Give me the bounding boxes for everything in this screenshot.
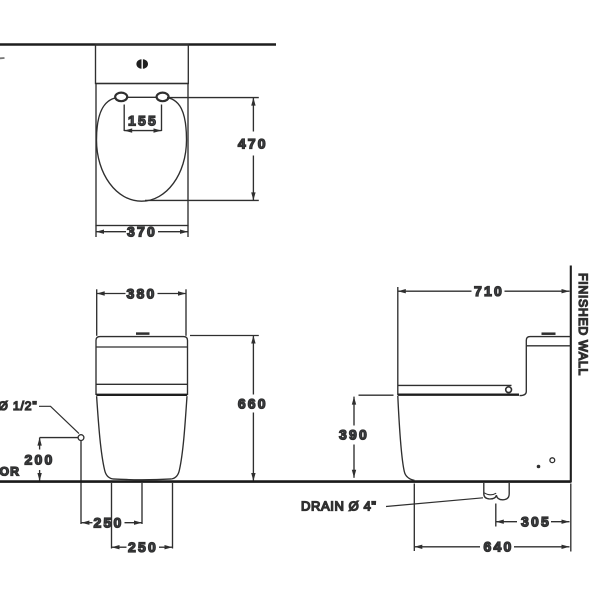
svg-text:Ø 1/2": Ø 1/2" bbox=[0, 399, 38, 413]
centre line below floor bbox=[141, 483, 143, 524]
wall line (plan) bbox=[0, 43, 276, 46]
svg-text:470: 470 bbox=[238, 135, 268, 151]
dimension 710 left extension line bbox=[397, 287, 399, 395]
seat (top view, egg shape) bbox=[97, 97, 187, 201]
supply leader line bbox=[39, 406, 79, 433]
svg-text:FINISHED WALL: FINISHED WALL bbox=[576, 273, 590, 376]
dimension 305 extension line (drain centre) bbox=[495, 504, 497, 527]
svg-text:660: 660 bbox=[238, 395, 268, 411]
floor line bbox=[0, 480, 571, 483]
stray edge tick top-left bbox=[0, 57, 5, 59]
bolt cap circle (side) bbox=[550, 458, 555, 463]
svg-text:DRAIN Ø 4": DRAIN Ø 4" bbox=[301, 499, 377, 514]
finished wall line bbox=[570, 266, 572, 483]
seat top line (front) bbox=[96, 383, 188, 385]
hinge right bbox=[157, 93, 169, 102]
svg-text:640: 640 bbox=[484, 539, 514, 555]
supply line below floor bbox=[80, 441, 82, 524]
seat bottom thick line (front) bbox=[96, 394, 187, 396]
dimension 250 lower line and arrows bbox=[112, 546, 127, 548]
svg-text:305: 305 bbox=[521, 514, 551, 530]
dimension 390 extension line bbox=[359, 394, 394, 396]
dimension 660 extension line bbox=[190, 335, 259, 337]
drain pipe (side) bbox=[484, 483, 509, 500]
bowl front edge (side) bbox=[398, 396, 415, 480]
dimension 200 tick to circle bbox=[40, 437, 78, 439]
svg-text:390: 390 bbox=[339, 427, 369, 443]
svg-text:250: 250 bbox=[94, 515, 124, 531]
dimension 640 extension line (bowl front) bbox=[413, 484, 415, 552]
seat bottom thick line (side) bbox=[398, 394, 519, 396]
bolt line b below floor bbox=[172, 483, 174, 549]
dimension 155 extension lines bbox=[123, 105, 125, 132]
flush button bbox=[136, 59, 148, 69]
tank top line (side) bbox=[520, 337, 571, 396]
dimension 660 line and arrows bbox=[252, 336, 254, 395]
drain leader line bbox=[386, 498, 483, 507]
dimension 640 line and arrows bbox=[414, 546, 480, 548]
svg-text:370: 370 bbox=[127, 224, 157, 240]
dimension 710 line and arrows bbox=[398, 290, 472, 292]
bolt cap dot (side) bbox=[537, 465, 541, 469]
bowl base arc (front) bbox=[113, 478, 172, 481]
drain lip arc bbox=[484, 493, 496, 495]
dimension 155 line and arrows bbox=[124, 130, 161, 132]
dimension 200 line and arrows bbox=[39, 438, 41, 450]
svg-text:380: 380 bbox=[127, 285, 157, 301]
svg-text:OR: OR bbox=[0, 464, 20, 478]
dimension 370 extension lines bbox=[95, 226, 97, 238]
hinge left bbox=[115, 93, 127, 102]
tank (front view) bbox=[96, 337, 188, 395]
tank lid handle (front) bbox=[136, 332, 150, 335]
dimension 305 line and arrows bbox=[496, 521, 517, 523]
dimension 370 line and arrows bbox=[96, 231, 126, 233]
dimension 250 upper line and arrows bbox=[81, 522, 92, 524]
wall extension below floor bbox=[570, 484, 572, 552]
dimension 380 extension lines bbox=[96, 289, 98, 336]
tank lid handle (side) bbox=[542, 332, 556, 335]
svg-text:155: 155 bbox=[128, 113, 158, 129]
seat top line (side) bbox=[398, 384, 512, 386]
seat hinge (side) bbox=[506, 387, 512, 393]
dimension 470 extension lines bbox=[167, 97, 259, 99]
dimension 380 line and arrows bbox=[97, 293, 126, 295]
svg-text:710: 710 bbox=[474, 283, 504, 299]
bowl left side (front) bbox=[97, 396, 113, 479]
tank lid line (side) bbox=[526, 345, 570, 347]
bowl outline rectangle (top view) bbox=[96, 84, 188, 226]
bowl right side (front) bbox=[172, 396, 187, 479]
tank lid line (front) bbox=[96, 346, 188, 348]
bolt line a below floor bbox=[111, 483, 113, 549]
dimension 390 line and arrows bbox=[353, 397, 355, 426]
svg-text:250: 250 bbox=[128, 539, 158, 555]
svg-text:200: 200 bbox=[25, 452, 55, 468]
dimension 470 line and arrows bbox=[252, 98, 254, 132]
supply stub circle bbox=[78, 435, 84, 441]
tank (top view) bbox=[96, 44, 189, 83]
